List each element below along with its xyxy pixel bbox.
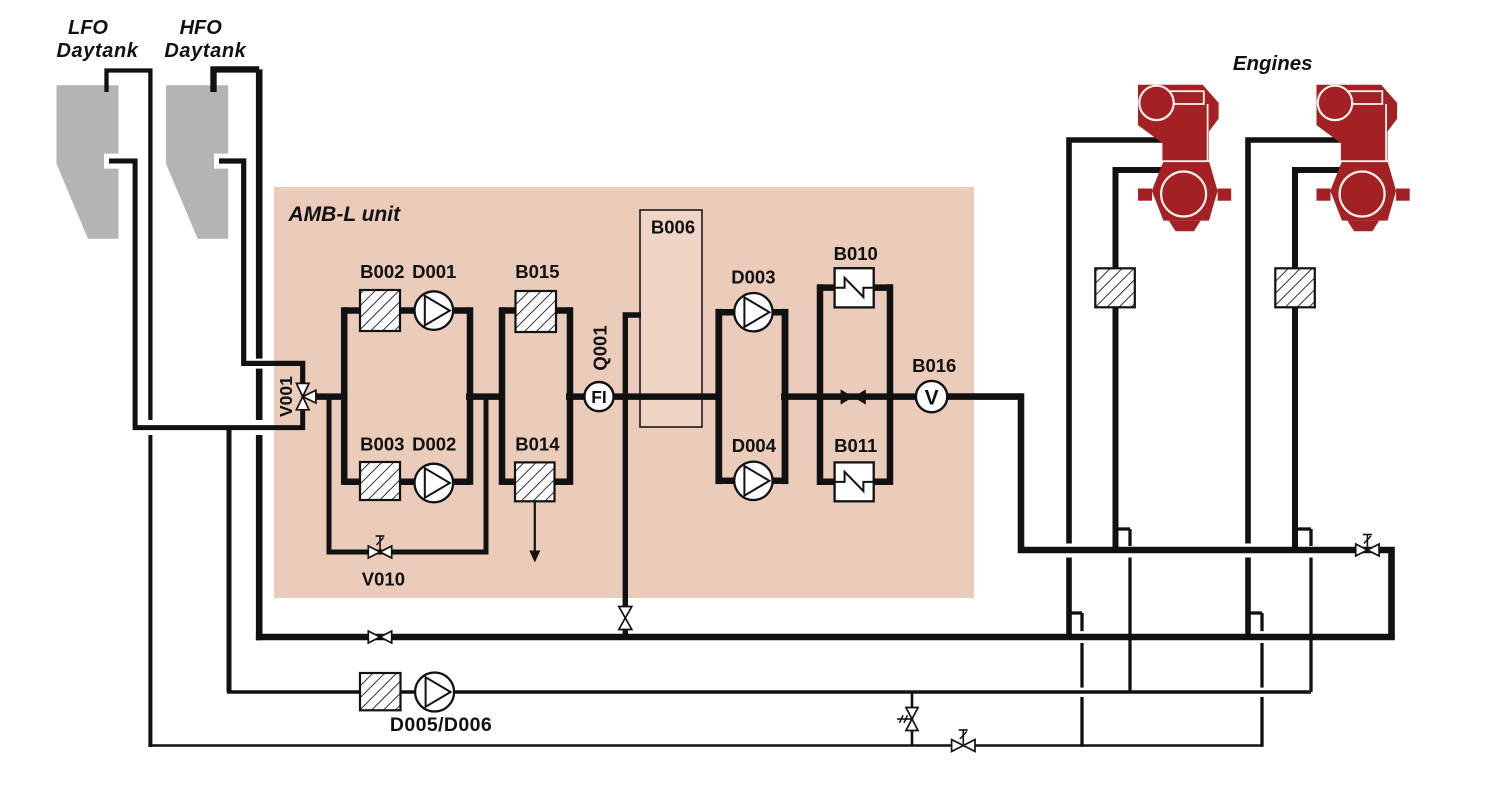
engine 2 [1317,85,1410,231]
viscosity meter B016 (V) [916,381,947,412]
wire: B016 outlet to engine supply header [944,397,1392,637]
wire: branch B003/D002 [344,478,470,485]
check valve after pumps D003/D004 [841,389,866,404]
svg-text:B003: B003 [360,434,404,455]
wire: branch D003 [719,309,785,316]
wire: engine1 drain drop a [1080,613,1083,631]
wire: V010 bypass loop [329,397,486,552]
wire: engine2 outer pipe down [1248,140,1347,544]
wire: fork4 right vertical [887,284,894,485]
svg-text:B014: B014 [515,434,560,455]
wire: LFO side pipe to V001 bottom [109,161,303,428]
svg-text:B010: B010 [834,243,878,264]
wire: V001 outlet to pump fork [311,393,347,400]
wire: branch B015 [502,307,570,314]
engine 1 [1138,85,1231,231]
filter engine1 supply [1095,268,1135,307]
heater B011 [835,462,874,501]
wire: branch B014 [502,478,570,485]
pump D005/D006 [415,673,454,712]
svg-text:D004: D004 [732,435,777,456]
wire: drain connector with valve x=912 [911,692,914,746]
svg-text:FI: FI [591,387,607,407]
wire: LFO top pipe lower part to bottom line [148,435,152,747]
filter B014 [515,462,555,501]
wire: engine2 drop upper [1309,529,1312,546]
wire: branch D004 [719,478,785,485]
svg-text:B011: B011 [834,435,877,456]
wire: bottom suction line y=745 [148,744,1263,747]
drain valve below B006 [619,607,632,630]
filter B015 [516,291,557,332]
wire: branch down to transfer pump line [227,428,232,692]
svg-text:B015: B015 [515,261,559,282]
valve V010 on pump bypass [368,536,391,558]
wire: engine return header y=637 [256,634,1395,641]
wire: HFO side pipe to V001 top [219,161,303,386]
svg-text:D003: D003 [731,266,775,287]
mixing tank B006 [640,210,702,427]
wire: engine1 jog stub upper [1116,527,1131,530]
arrowhead B014 drain [529,551,540,563]
svg-text:V001: V001 [276,376,296,417]
svg-text:B002: B002 [360,261,404,282]
wire: engine1 jog stub lower [1069,611,1082,614]
wire: engine2 drop to transfer line [1309,558,1312,693]
wire: engine2 jog stub lower [1248,611,1262,614]
wire: drain below valve to return line [623,629,628,640]
wire: fork4 left vertical [817,284,824,485]
svg-text:HFO: HFO [180,17,223,39]
svg-text:AMB-L unit: AMB-L unit [288,203,402,226]
wire: engine2 inner pipe down to supply header [1295,170,1344,550]
wire: B014 drain line [534,501,536,553]
wire: branch B010 [820,284,890,291]
wire: HFO tank top return pipe corner [214,69,260,92]
svg-text:V010: V010 [362,569,405,590]
wire: HFO return vertical (middle) [256,369,263,420]
wire: main line through Q001 and B006 [566,393,722,400]
svg-text:D002: D002 [412,434,456,455]
valve on return header x=380 [368,631,391,643]
wire: LFO tank top pipe down (upper part) [107,71,151,421]
HFO daytank [166,85,228,239]
pump D004 [734,462,772,500]
svg-text:Daytank: Daytank [56,40,138,62]
wire: engine2 drain drop b [1260,643,1263,688]
wire: transfer pump line y=692 (D005/D006) [227,690,1311,693]
filter transfer D005/D006 [360,673,401,710]
wire: HFO return vertical (lower) [256,435,263,640]
wire: branch B002/D001 [344,307,470,314]
wire: engine1 drain drop c [1080,697,1083,747]
white halo at LFO suction outlet [104,154,140,169]
wire: engine2 drain drop c [1260,697,1263,747]
wire: fork1 left vertical [341,307,348,485]
wire: engine1 drain drop b [1080,643,1083,688]
svg-text:D005/D006: D005/D006 [390,714,492,736]
wire: fork1 right vertical [467,307,474,485]
white halo at HFO suction outlet [214,154,250,169]
svg-text:Q001: Q001 [590,325,611,370]
wire: engine1 inner pipe down to supply header [1116,170,1166,550]
wire: engine1 drop to transfer line [1128,558,1131,693]
svg-text:D001: D001 [412,261,456,282]
AMB-L unit background box [274,187,974,598]
svg-text:B006: B006 [651,216,695,237]
wire: engine2 jog stub upper [1295,527,1311,530]
LFO daytank [57,85,119,239]
wire: engine1 drop upper [1128,529,1131,546]
filter B003 [360,462,400,500]
three-way valve V001 [296,383,316,409]
wire: engine2 outer pipe below supply header [1245,558,1251,641]
wire: main line through check valve [781,393,920,400]
wire: main line between forks [466,393,505,400]
wire: fork3 right vertical [782,309,789,484]
svg-text:LFO: LFO [68,17,108,39]
svg-text:Daytank: Daytank [164,40,246,62]
flow indicator Q001 (FI) [584,382,613,411]
wire: branch B011 [820,478,890,485]
valve on drain connector x=912 [897,708,918,731]
wire: B006 branch and drain down to valve [625,315,641,607]
wire: fork2 right vertical [567,307,574,485]
svg-text:B016: B016 [912,355,956,376]
wire: fork3 left vertical [715,309,722,484]
pump D002 [415,464,454,503]
wire: engine1 outer pipe down [1069,140,1168,544]
wire: HFO return vertical (upper) [256,69,263,358]
wire: engine1 outer pipe below supply header [1066,558,1072,641]
svg-text:V: V [925,386,939,409]
heater B010 [835,268,874,307]
wire: fork2 left vertical [499,307,506,485]
svg-text:Engines: Engines [1233,52,1313,75]
pump D001 [415,291,454,330]
valve on bottom suction line x=963 [952,730,975,752]
wire: engine2 drain drop a [1260,613,1263,631]
valve on supply header x=1367 [1356,535,1379,557]
pump D003 [734,293,772,331]
filter engine2 supply [1275,268,1315,307]
filter B002 [360,290,400,331]
